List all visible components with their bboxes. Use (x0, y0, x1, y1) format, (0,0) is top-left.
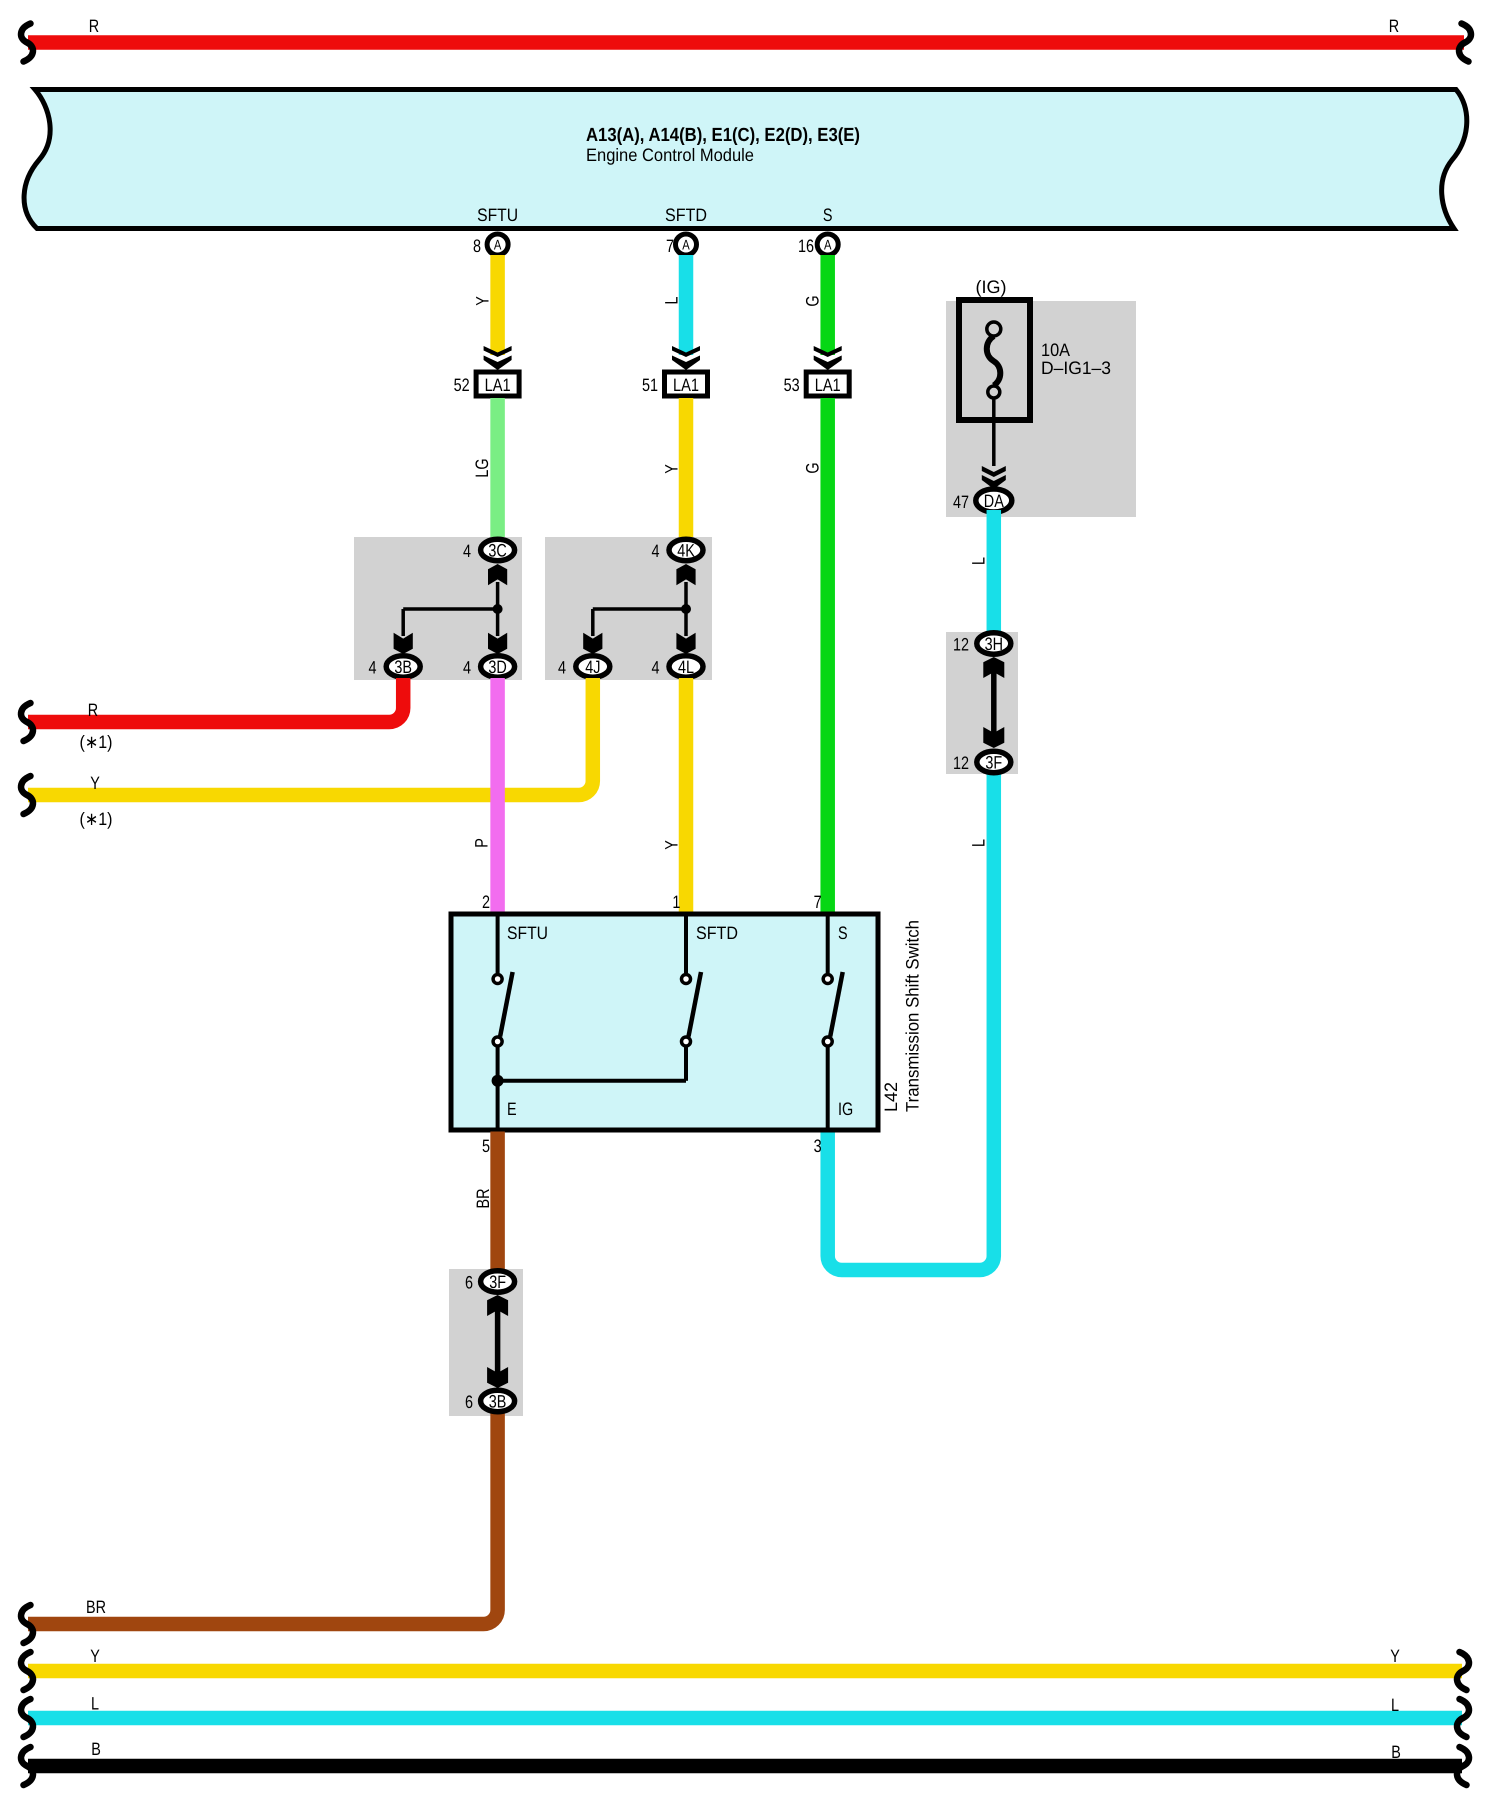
label (*1) under Y wire (80, 809, 113, 829)
switch SFTD contact (inside L42) (682, 917, 739, 1081)
svg-text:LA1: LA1 (815, 375, 841, 395)
svg-text:G: G (803, 462, 823, 473)
connector 3F pin 6 (465, 1271, 515, 1293)
svg-text:3C: 3C (488, 541, 506, 561)
label L (bottom right) (1391, 1695, 1399, 1715)
wire Y: 4L down to switch pin 1 (662, 678, 687, 914)
svg-text:52: 52 (454, 375, 470, 395)
label R (right, top wire) (1389, 16, 1399, 36)
wire BR: switch pin 5 down to connector 3F (473, 1132, 498, 1291)
svg-text:3B: 3B (394, 657, 412, 677)
connector 3H pin 12 (953, 633, 1011, 655)
connector block J/C 4K-4J-4L (gray) (545, 537, 712, 680)
switch S contact (inside L42) (823, 917, 853, 1129)
wire G: LA1-53 down to switch pin 7 (803, 398, 828, 914)
svg-text:A13(A), A14(B), E1(C), E2(D),: A13(A), A14(B), E1(C), E2(D), E3(E) (586, 125, 860, 146)
wire G: S from pin 16A down to junction LA1-53 (803, 255, 828, 355)
wire L: 3F down, left and up to switch pin 3 (IG) (828, 758, 994, 1270)
svg-text:BR: BR (86, 1597, 106, 1617)
junction connector LA1 pin 52 with arrow (454, 346, 520, 396)
label Y (bottom right) (1390, 1646, 1400, 1666)
svg-text:4: 4 (651, 541, 659, 561)
svg-text:Y: Y (90, 773, 100, 793)
svg-text:L: L (91, 1694, 99, 1714)
svg-text:8: 8 (473, 236, 481, 256)
svg-text:51: 51 (642, 375, 658, 395)
svg-text:SFTU: SFTU (477, 205, 518, 225)
svg-text:12: 12 (953, 635, 969, 655)
svg-text:L: L (969, 557, 989, 565)
svg-text:5: 5 (482, 1136, 490, 1156)
wire BR: 3B down and left to edge (28, 1395, 498, 1624)
switch pin number 7 (814, 892, 822, 912)
svg-text:16: 16 (798, 236, 814, 256)
svg-text:SFTD: SFTD (696, 923, 738, 943)
label (*1) under R wire (80, 732, 113, 752)
svg-text:53: 53 (784, 375, 800, 395)
svg-text:Y: Y (1390, 1646, 1400, 1666)
svg-text:3H: 3H (985, 634, 1003, 654)
svg-text:7: 7 (814, 892, 822, 912)
svg-text:R: R (88, 700, 98, 720)
wire L: DA down to connector 3H (969, 510, 994, 648)
connector 3C pin 4 (463, 539, 515, 561)
fuse 10A D-IG1-3 (959, 300, 1111, 420)
label L (bottom left) (91, 1694, 99, 1714)
svg-text:P: P (472, 838, 492, 848)
svg-text:R: R (89, 16, 99, 36)
svg-text:G: G (803, 295, 823, 306)
svg-text:Y: Y (662, 464, 682, 474)
label R (left, top wire) (89, 16, 99, 36)
switch pin number 1 (672, 892, 680, 912)
svg-text:S: S (823, 205, 833, 225)
svg-text:LA1: LA1 (485, 375, 511, 395)
connector 3D pin 4 (463, 656, 515, 678)
break symbol left of top red wire (21, 24, 33, 62)
switch pin number 3 (814, 1136, 822, 1156)
svg-text:E: E (507, 1099, 517, 1119)
svg-text:L: L (969, 839, 989, 847)
label L42 (rotated) (881, 1082, 901, 1112)
connector 4L pin 4 (651, 656, 703, 678)
svg-text:A: A (494, 237, 502, 253)
wire L: bottom bus (28, 1711, 1462, 1726)
svg-text:12: 12 (953, 753, 969, 773)
label R (*1 wire) (88, 700, 98, 720)
svg-text:2: 2 (482, 892, 490, 912)
svg-text:4J: 4J (585, 657, 600, 677)
label BR (bottom horizontal wire) (86, 1597, 106, 1617)
wire Y (*1): from left edge to connector 4J (28, 678, 593, 795)
svg-text:47: 47 (953, 492, 969, 512)
svg-text:4: 4 (463, 541, 471, 561)
label Y (bottom left) (90, 1646, 100, 1666)
wire R (*1): from left edge to connector 3B (28, 678, 403, 722)
wire P: 3D down to switch pin 2 (472, 678, 498, 914)
svg-text:(∗1): (∗1) (80, 809, 113, 829)
svg-text:Y: Y (90, 1646, 100, 1666)
svg-text:L: L (1391, 1695, 1399, 1715)
break symbols of bottom B bus (21, 1747, 1469, 1785)
lead from fuse to connector DA with arrow (982, 399, 1006, 490)
wire Y: bottom bus (28, 1664, 1462, 1679)
svg-text:B: B (91, 1739, 101, 1759)
svg-text:BR: BR (473, 1188, 493, 1208)
svg-text:D–IG1–3: D–IG1–3 (1041, 358, 1111, 378)
svg-text:4: 4 (558, 658, 566, 678)
label Transmission Shift Switch (rotated) (903, 920, 923, 1112)
junction connector LA1 pin 51 with arrow (642, 346, 708, 396)
wire Y: SFTU from pin 8A down to junction LA1-52 (473, 255, 498, 355)
svg-text:Y: Y (662, 840, 682, 850)
switch SFTU contact (inside L42) (493, 917, 548, 1129)
svg-text:10A: 10A (1041, 340, 1070, 360)
wire R: top red power feed (28, 35, 1464, 50)
svg-text:A: A (682, 237, 690, 253)
internal link E node: junction dot and tie line SFTU-SFTD (492, 1075, 686, 1087)
connector A pin 8 (SFTU output) (473, 234, 508, 256)
svg-text:Y: Y (473, 296, 493, 306)
connector 4J pin 4 (558, 656, 610, 678)
svg-text:3: 3 (814, 1136, 822, 1156)
wire L: SFTD from pin 7A down to junction LA1-51 (662, 255, 687, 355)
break symbols of bottom Y bus (21, 1652, 1469, 1690)
svg-text:3F: 3F (489, 1272, 506, 1292)
svg-text:DA: DA (984, 491, 1004, 511)
svg-text:(IG): (IG) (976, 277, 1007, 297)
svg-text:LA1: LA1 (673, 375, 699, 395)
svg-text:1: 1 (672, 892, 680, 912)
svg-text:3B: 3B (489, 1392, 507, 1412)
connector DA pin 47 (953, 489, 1012, 512)
svg-text:3F: 3F (985, 753, 1002, 773)
switch pin number 5 (482, 1136, 490, 1156)
wire B: bottom bus (ground) (28, 1759, 1462, 1774)
connector block J/C 3C-3B-3D (gray) (354, 537, 522, 680)
connector block 3H-3F (gray) (946, 632, 1018, 774)
connector block 3F-3B lower (gray) (449, 1269, 523, 1416)
svg-text:IG: IG (838, 1099, 853, 1119)
L42 Transmission Shift Switch box (451, 914, 878, 1130)
double arrow between 3H and 3F (983, 657, 1004, 748)
break symbol right of top red wire (1459, 24, 1471, 62)
connector 4K pin 4 (651, 539, 703, 561)
svg-text:A: A (824, 237, 832, 253)
svg-text:6: 6 (465, 1392, 473, 1412)
wire LG: LA1-52 down to connector 3C (472, 398, 498, 545)
svg-text:SFTU: SFTU (507, 923, 548, 943)
double arrow between 3F and 3B (487, 1295, 508, 1388)
ECM: Engine Control Module box A13(A),A14(B),E1(C),E2(D),E3(E) (24, 90, 1467, 229)
svg-text:S: S (838, 923, 848, 943)
svg-text:6: 6 (465, 1273, 473, 1293)
svg-text:Transmission Shift Switch: Transmission Shift Switch (903, 920, 923, 1112)
svg-text:R: R (1389, 16, 1399, 36)
connector 3F pin 12 (953, 751, 1011, 773)
svg-text:LG: LG (472, 458, 492, 477)
connector 3B pin 4 (368, 656, 420, 678)
label B (bottom left) (91, 1739, 101, 1759)
internal wiring of 3C-3B-3D block (394, 564, 508, 654)
svg-text:L: L (662, 296, 682, 304)
svg-text:4: 4 (463, 658, 471, 678)
connector A pin 7 (SFTD output) (666, 234, 697, 256)
svg-text:4: 4 (651, 658, 659, 678)
svg-text:4L: 4L (678, 657, 694, 677)
label B (bottom right) (1391, 1742, 1401, 1762)
svg-text:(∗1): (∗1) (80, 732, 113, 752)
connector 3B pin 6 (465, 1390, 515, 1412)
connector A pin 16 (S output) (798, 234, 838, 256)
svg-text:3D: 3D (488, 657, 506, 677)
switch pin number 2 (482, 892, 490, 912)
fuse block housing (gray) with label (IG) (946, 277, 1136, 517)
svg-text:4K: 4K (677, 541, 695, 561)
svg-text:SFTD: SFTD (665, 205, 707, 225)
wire Y: LA1-51 down to connector 4K (662, 398, 687, 545)
svg-text:L42: L42 (881, 1082, 901, 1112)
label Y (*1 wire) (90, 773, 100, 793)
break symbol left of Y (*1) wire (21, 776, 33, 814)
break symbol left of R (*1) wire (21, 703, 33, 741)
svg-text:Engine Control Module: Engine Control Module (586, 145, 754, 165)
break symbols of bottom L bus (21, 1699, 1469, 1737)
junction connector LA1 pin 53 with arrow (784, 346, 850, 396)
internal wiring of 4K-4J-4L block (583, 564, 695, 654)
break symbol left of BR wire (21, 1605, 33, 1643)
svg-text:4: 4 (368, 658, 376, 678)
svg-text:B: B (1391, 1742, 1401, 1762)
svg-text:7: 7 (666, 236, 674, 256)
